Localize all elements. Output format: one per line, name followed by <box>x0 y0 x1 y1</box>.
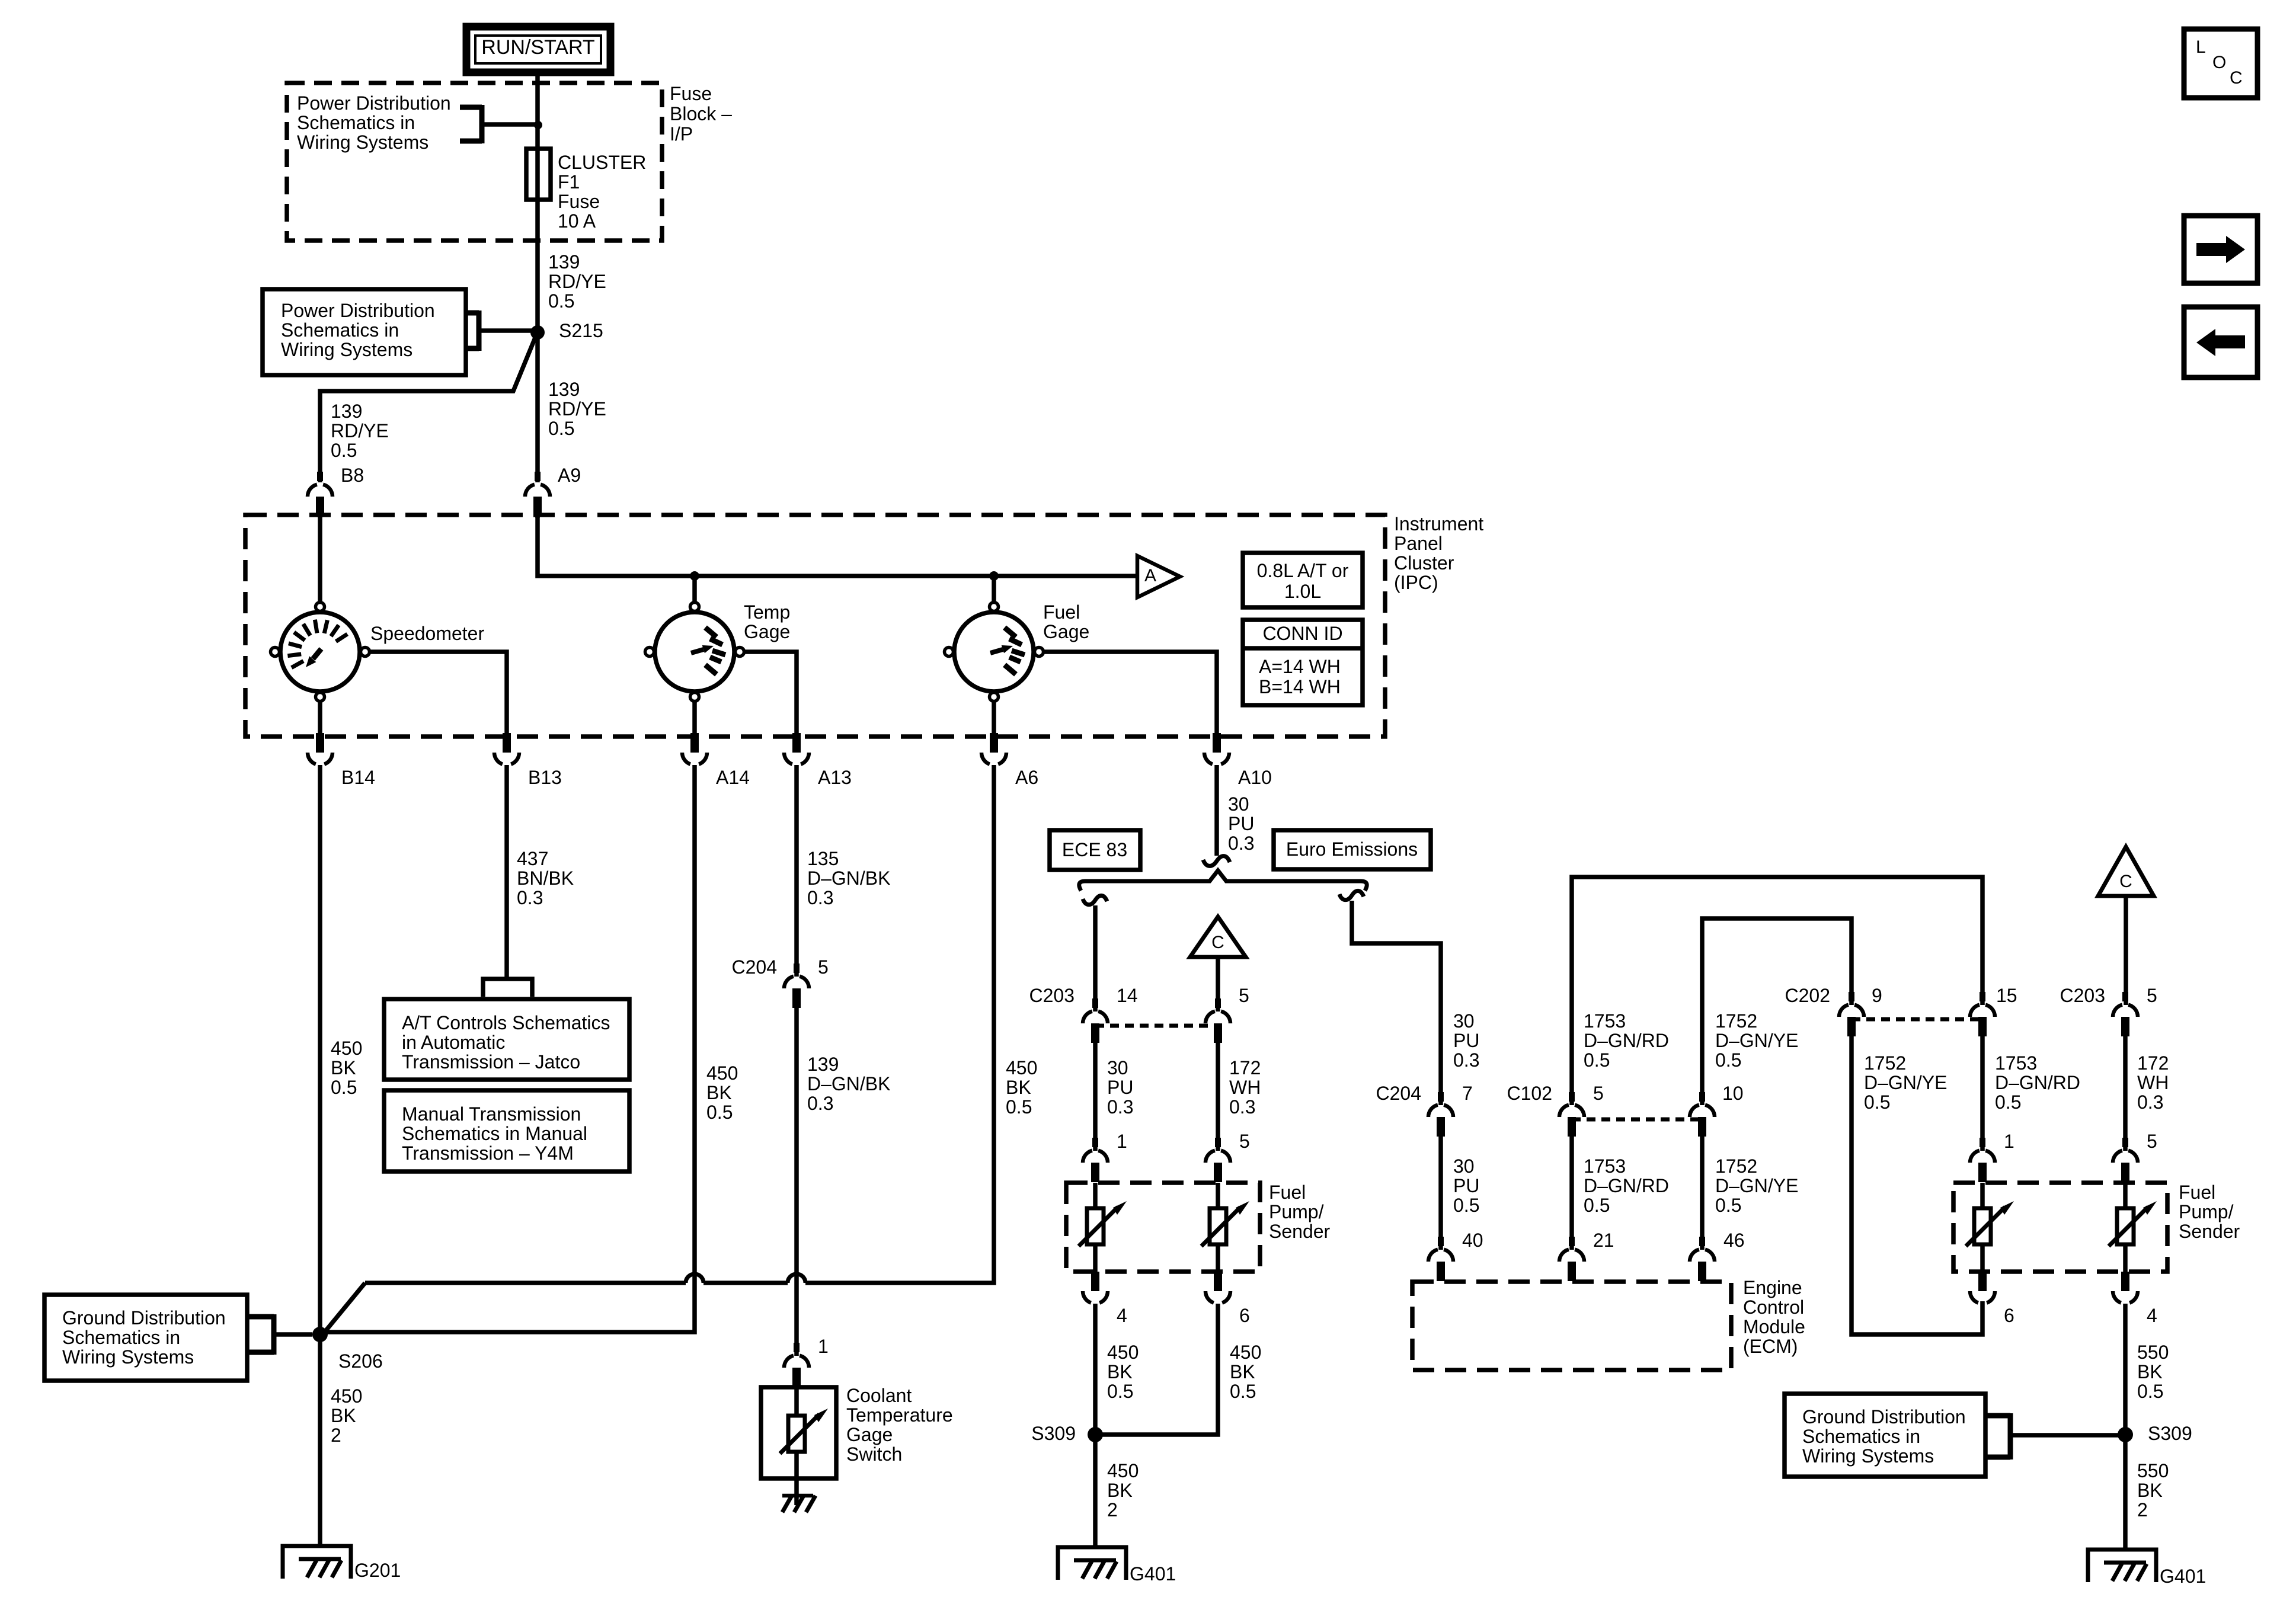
wire C triangle to C203-5 <box>1216 957 1220 1012</box>
label 450 BK 2 (left) <box>1107 1460 1139 1521</box>
wire C204-7 to ECM 40 <box>1438 1137 1443 1250</box>
svg-text:550: 550 <box>2137 1460 2169 1481</box>
connector fuel pump pin 6 (right) <box>1970 1272 1995 1303</box>
connector C203 pin 14 <box>1083 998 1108 1043</box>
svg-text:BK: BK <box>331 1405 356 1426</box>
svg-text:0.3: 0.3 <box>1107 1096 1133 1118</box>
staple to A/T box <box>483 979 532 997</box>
svg-text:14: 14 <box>1117 985 1138 1006</box>
svg-text:Fuel: Fuel <box>1043 601 1080 623</box>
svg-text:O: O <box>2212 53 2226 72</box>
instrument panel cluster dashed box <box>245 515 1385 737</box>
svg-text:S215: S215 <box>559 320 603 341</box>
wire A14 down to S206 branch <box>320 765 695 1332</box>
svg-text:Fuel: Fuel <box>1269 1182 1306 1203</box>
label 139 RD/YE 0.5 (B8 branch) <box>331 401 389 461</box>
connector C204 pin 7 <box>1428 1092 1453 1137</box>
svg-text:5: 5 <box>1239 985 1249 1006</box>
label 172 WH 0.3 (below C203-5) <box>1229 1057 1261 1118</box>
label 1752 D-GN/YE 0.5 (below C102) <box>1715 1156 1798 1216</box>
brace variant split <box>1079 870 1367 891</box>
svg-text:Sender: Sender <box>1269 1221 1331 1242</box>
power source RUN/START <box>466 27 610 72</box>
svg-text:1: 1 <box>2004 1131 2014 1152</box>
svg-text:Euro Emissions: Euro Emissions <box>1286 838 1418 860</box>
wire C triangle to C203-5 right <box>2124 896 2128 1005</box>
connector fuel pump pin 5 (left) <box>1205 1138 1230 1182</box>
svg-text:1: 1 <box>818 1336 829 1357</box>
svg-text:0.5: 0.5 <box>1995 1092 2021 1113</box>
svg-text:C204: C204 <box>1376 1083 1422 1104</box>
pin A6 label <box>1015 767 1038 788</box>
connector fuel pump pin 1 (right) <box>1970 1138 1995 1182</box>
svg-text:0.5: 0.5 <box>331 440 357 461</box>
svg-text:C202: C202 <box>1785 985 1831 1006</box>
svg-text:Fuse: Fuse <box>670 83 712 104</box>
wire pin4 to S309 to G401 (right) <box>2123 1304 2128 1549</box>
svg-text:C: C <box>1211 933 1224 952</box>
svg-text:9: 9 <box>1872 985 1882 1006</box>
svg-text:Gage: Gage <box>744 621 790 642</box>
break squiggle ECE branch <box>1083 895 1107 904</box>
connector ECM pin 40 <box>1428 1237 1453 1281</box>
svg-text:Wiring Systems: Wiring Systems <box>297 132 428 153</box>
svg-text:450: 450 <box>1006 1057 1037 1078</box>
svg-text:0.5: 0.5 <box>548 290 574 312</box>
svg-text:BK: BK <box>1107 1361 1133 1382</box>
connector C202 pin 9 <box>1839 992 1864 1036</box>
pin B14 label <box>341 767 375 788</box>
svg-text:D–GN/RD: D–GN/RD <box>1584 1175 1669 1196</box>
svg-text:40: 40 <box>1462 1230 1483 1251</box>
wire B8 into IPC <box>318 516 322 601</box>
svg-text:G201: G201 <box>354 1560 401 1581</box>
pin B13 label <box>528 767 562 788</box>
wire C102-5 to ECM 21 <box>1569 1137 1574 1250</box>
svg-text:0.3: 0.3 <box>1453 1049 1479 1071</box>
svg-text:15: 15 <box>1996 985 2017 1006</box>
svg-text:A=14 WH: A=14 WH <box>1259 656 1341 677</box>
svg-text:7: 7 <box>1462 1083 1473 1104</box>
fuse CLUSTER F1 10A <box>526 149 551 200</box>
wire Euro branch to C204-7 <box>1352 901 1441 1105</box>
svg-text:450: 450 <box>1107 1460 1139 1481</box>
svg-text:PU: PU <box>1453 1030 1479 1051</box>
svg-text:10: 10 <box>1722 1083 1744 1104</box>
wire fuse to S215 to A9 <box>535 200 540 482</box>
svg-text:5: 5 <box>2147 1131 2157 1152</box>
svg-text:C: C <box>2230 68 2243 88</box>
svg-text:Fuel: Fuel <box>2179 1182 2215 1203</box>
pin A13 label <box>818 767 852 788</box>
wire speedometer to B14 <box>318 702 322 735</box>
svg-text:BK: BK <box>1107 1480 1133 1501</box>
connector C102 pin 10 <box>1690 1092 1715 1137</box>
wire A6 down to S206 branch <box>324 765 994 1333</box>
svg-text:Coolant: Coolant <box>846 1385 912 1406</box>
label G401 (left) <box>1130 1563 1176 1585</box>
svg-text:C203: C203 <box>2060 985 2106 1006</box>
svg-text:BK: BK <box>1006 1077 1031 1098</box>
svg-text:450: 450 <box>331 1385 362 1407</box>
label 172 WH 0.3 (C203-5 right) <box>2137 1052 2169 1113</box>
connector ECM pin 46 <box>1690 1237 1715 1281</box>
svg-text:Instrument: Instrument <box>1394 513 1483 534</box>
svg-text:4: 4 <box>2147 1305 2157 1326</box>
connector C202 pin 15 <box>1970 992 1995 1036</box>
label 550 BK 0.5 <box>2137 1342 2169 1402</box>
bracket ground distribution left <box>247 1314 312 1355</box>
wire net 1753 upper loop <box>1572 877 1982 1105</box>
wire C102-10 to ECM 46 <box>1700 1137 1705 1250</box>
svg-text:RD/YE: RD/YE <box>548 398 606 420</box>
wire B14 to S206 to G201 <box>318 765 322 1547</box>
connector coolant switch pin 1 <box>784 1343 809 1387</box>
node S309 splice (right) <box>2118 1423 2192 1444</box>
svg-text:0.3: 0.3 <box>807 887 833 908</box>
wire C204-5 to coolant switch <box>794 1008 799 1356</box>
svg-text:C: C <box>2119 872 2132 891</box>
svg-text:Schematics in: Schematics in <box>297 112 415 133</box>
fuel sender resistor (left b) <box>1201 1183 1249 1272</box>
svg-text:Block –: Block – <box>670 103 732 124</box>
svg-text:46: 46 <box>1723 1230 1745 1251</box>
svg-text:A: A <box>1144 566 1156 585</box>
pin 40 label <box>1462 1230 1483 1251</box>
svg-text:S309: S309 <box>1031 1423 1076 1444</box>
connector B14 <box>308 733 332 764</box>
svg-text:BK: BK <box>331 1057 356 1078</box>
label 450 BK 0.5 (fuel ground) <box>1006 1057 1037 1118</box>
svg-text:Ground Distribution: Ground Distribution <box>1802 1406 1966 1427</box>
svg-text:0.5: 0.5 <box>1006 1096 1032 1118</box>
label Fuel Pump Sender (right) <box>2179 1182 2240 1242</box>
svg-text:D–GN/YE: D–GN/YE <box>1715 1030 1798 1051</box>
label 450 BK 0.5 (temp ground) <box>706 1062 738 1123</box>
fuse block dashed box Fuse Block - I/P <box>287 83 662 241</box>
wire temp gage to A14 <box>692 702 697 735</box>
svg-text:Sender: Sender <box>2179 1221 2240 1242</box>
wire coolant switch to ground <box>794 1478 799 1505</box>
svg-text:D–GN/YE: D–GN/YE <box>1715 1175 1798 1196</box>
svg-text:Manual Transmission: Manual Transmission <box>402 1103 581 1125</box>
wire net 1752 upper loop <box>1702 918 1851 1105</box>
svg-text:1753: 1753 <box>1995 1052 2037 1074</box>
label 1752 D-GN/YE 0.5 (above C102) <box>1715 1010 1798 1071</box>
svg-text:B=14 WH: B=14 WH <box>1259 676 1341 697</box>
svg-text:Cluster: Cluster <box>1394 552 1454 574</box>
pin B8 label <box>341 465 364 486</box>
svg-text:Switch: Switch <box>846 1443 902 1465</box>
fuel pump sender dashed box (right) <box>1953 1183 2167 1272</box>
wire feed to fuel gauge <box>992 576 996 601</box>
svg-text:1753: 1753 <box>1584 1156 1626 1177</box>
svg-text:172: 172 <box>1229 1057 1261 1078</box>
svg-text:0.8L A/T or: 0.8L A/T or <box>1257 560 1349 581</box>
svg-text:0.5: 0.5 <box>1864 1092 1890 1113</box>
node S206 splice <box>312 1327 383 1372</box>
svg-text:BK: BK <box>706 1082 732 1103</box>
svg-text:2: 2 <box>2137 1499 2148 1521</box>
bracket to power distribution (top) <box>460 105 538 143</box>
svg-text:BK: BK <box>2137 1361 2163 1382</box>
pin 4 label (left) <box>1117 1305 1127 1326</box>
ground G201 <box>283 1546 351 1579</box>
label 550 BK 2 <box>2137 1460 2169 1521</box>
svg-text:0.3: 0.3 <box>1228 833 1254 854</box>
label 1753 D-GN/RD 0.5 (C202-15) <box>1995 1052 2080 1113</box>
fuel sender resistor (right a) <box>1966 1183 2014 1272</box>
svg-text:5: 5 <box>1593 1083 1604 1104</box>
svg-text:RD/YE: RD/YE <box>548 271 606 292</box>
node feed-temp junction <box>690 571 699 581</box>
svg-text:Gage: Gage <box>1043 621 1089 642</box>
svg-text:Speedometer: Speedometer <box>370 623 484 644</box>
label CLUSTER F1 Fuse 10 A <box>558 152 646 232</box>
pin 6 label (right) <box>2004 1305 2014 1326</box>
break squiggle Euro branch <box>1339 891 1364 900</box>
wire A10 down <box>1214 765 1219 856</box>
label Coolant Temperature Gage Switch <box>846 1385 953 1465</box>
svg-text:30: 30 <box>1107 1057 1128 1078</box>
svg-text:2: 2 <box>1107 1499 1118 1521</box>
svg-text:A10: A10 <box>1238 767 1272 788</box>
box ECE 83 <box>1050 830 1140 870</box>
svg-text:in Automatic: in Automatic <box>402 1032 505 1053</box>
wire feed to temp gauge <box>692 576 697 601</box>
svg-text:550: 550 <box>2137 1342 2169 1363</box>
svg-text:BK: BK <box>1230 1361 1255 1382</box>
box CONN ID <box>1243 620 1363 705</box>
svg-text:0.3: 0.3 <box>807 1093 833 1114</box>
svg-text:Wiring Systems: Wiring Systems <box>281 339 412 360</box>
wire pin6 to S309 (left) <box>1095 1304 1218 1435</box>
connector C102 labels <box>1507 1083 1744 1104</box>
label 30 PU 0.3 (A10) <box>1228 793 1254 854</box>
svg-text:30: 30 <box>1228 793 1249 815</box>
svg-text:0.3: 0.3 <box>2137 1092 2163 1113</box>
svg-text:Temp: Temp <box>744 601 790 623</box>
dashed link C102 <box>1572 1118 1702 1122</box>
svg-text:CONN ID: CONN ID <box>1262 623 1342 644</box>
box Euro Emissions <box>1274 830 1431 869</box>
svg-text:437: 437 <box>517 848 548 869</box>
label 30 PU 0.3 (below C203-14) <box>1107 1057 1133 1118</box>
svg-text:Module: Module <box>1743 1316 1805 1337</box>
connector C204 pin 5 labels <box>732 956 829 978</box>
ground G401 (left) <box>1058 1547 1126 1580</box>
pin 5 label (left fuel pump) <box>1239 1131 1250 1152</box>
gauge fuel gage <box>945 603 1044 702</box>
gauge speedometer <box>271 603 370 702</box>
connector C204 pin 7 labels <box>1376 1083 1473 1104</box>
svg-text:0.5: 0.5 <box>1584 1049 1610 1071</box>
connector C102 pin 5 <box>1559 1092 1584 1137</box>
label Fuel Pump Sender (left) <box>1269 1182 1331 1242</box>
label G401 (right) <box>2160 1566 2206 1587</box>
svg-text:Schematics in: Schematics in <box>1802 1426 1920 1447</box>
label Power Distribution Schematics (top) <box>297 92 451 153</box>
connector fuel pump pin 6 (left) <box>1205 1272 1230 1303</box>
pin 21 label <box>1593 1230 1614 1251</box>
connector C203 pin 5 (left) <box>1205 998 1230 1043</box>
connector A6 <box>981 733 1006 764</box>
reference triangle C (right) <box>2098 847 2154 896</box>
wire C203-5 to fuel pump 5 (right) <box>2123 1036 2128 1151</box>
pin 46 label <box>1723 1230 1745 1251</box>
legend LOC box <box>2184 29 2257 98</box>
arrow reference A <box>1137 556 1180 597</box>
svg-text:139: 139 <box>548 379 580 400</box>
svg-text:CLUSTER: CLUSTER <box>558 152 646 173</box>
svg-text:139: 139 <box>807 1054 839 1075</box>
svg-text:0.5: 0.5 <box>1230 1381 1256 1402</box>
svg-text:450: 450 <box>331 1038 362 1059</box>
svg-text:B14: B14 <box>341 767 375 788</box>
svg-text:Ground Distribution: Ground Distribution <box>62 1307 226 1329</box>
svg-text:D–GN/YE: D–GN/YE <box>1864 1072 1947 1093</box>
svg-text:21: 21 <box>1593 1230 1614 1251</box>
svg-text:2: 2 <box>331 1425 341 1446</box>
connector fuel pump pin 1 (left) <box>1083 1138 1108 1182</box>
svg-text:1: 1 <box>1117 1131 1127 1152</box>
wire C203-14 to fuel pump 1 <box>1093 1043 1098 1151</box>
svg-text:0.5: 0.5 <box>1715 1049 1741 1071</box>
svg-text:6: 6 <box>2004 1305 2014 1326</box>
svg-text:(IPC): (IPC) <box>1394 572 1438 593</box>
svg-text:Schematics in: Schematics in <box>62 1327 180 1348</box>
svg-text:Fuse: Fuse <box>558 191 600 212</box>
pin 5 label (C203 left) <box>1239 985 1249 1006</box>
svg-text:D–GN/RD: D–GN/RD <box>1584 1030 1669 1051</box>
connector A9 <box>525 472 550 518</box>
svg-text:172: 172 <box>2137 1052 2169 1074</box>
connector A13 <box>784 733 809 764</box>
wire fuel gage to A6 <box>992 702 996 735</box>
label 1752 D-GN/YE 0.5 (C202-9) <box>1864 1052 1947 1113</box>
svg-text:ECE 83: ECE 83 <box>1062 839 1127 860</box>
svg-text:C102: C102 <box>1507 1083 1553 1104</box>
svg-text:0.5: 0.5 <box>1584 1195 1610 1216</box>
wire C202-15 to fuel pump 1 <box>1980 1036 1985 1151</box>
coolant temperature gage switch box <box>761 1387 836 1478</box>
svg-text:D–GN/RD: D–GN/RD <box>1995 1072 2080 1093</box>
node junction at fuse block <box>534 121 542 129</box>
wire fuel gage right to A10 <box>1044 652 1217 735</box>
svg-text:0.5: 0.5 <box>1453 1195 1479 1216</box>
connector fuel pump pin 4 (left) <box>1083 1272 1108 1303</box>
svg-text:30: 30 <box>1453 1156 1475 1177</box>
svg-text:Wiring Systems: Wiring Systems <box>62 1346 194 1368</box>
label Instrument Panel Cluster (IPC) <box>1394 513 1483 593</box>
svg-text:6: 6 <box>1239 1305 1250 1326</box>
svg-text:PU: PU <box>1228 813 1254 834</box>
svg-text:WH: WH <box>1229 1077 1261 1098</box>
pin A10 label <box>1238 767 1272 788</box>
label G201 <box>354 1560 401 1581</box>
svg-text:0.5: 0.5 <box>331 1077 357 1098</box>
wire A13 down to C204 <box>794 765 799 977</box>
connector C203 labels left <box>1029 985 1138 1006</box>
svg-text:5: 5 <box>1239 1131 1250 1152</box>
svg-text:A13: A13 <box>818 767 852 788</box>
bracket to power distribution (mid) <box>466 311 533 351</box>
label 135 D-GN/BK 0.3 <box>807 848 890 908</box>
svg-text:Pump/: Pump/ <box>2179 1201 2234 1222</box>
pin 1 label (coolant switch) <box>818 1336 829 1357</box>
box 0.8L A/T or 1.0L <box>1243 553 1363 607</box>
svg-text:C204: C204 <box>732 956 778 978</box>
fuel sender resistor (left a) <box>1079 1183 1127 1272</box>
pin 4 label (right) <box>2147 1305 2157 1326</box>
svg-text:Power Distribution: Power Distribution <box>297 92 451 114</box>
svg-text:139: 139 <box>548 251 580 273</box>
label Engine Control Module (ECM) <box>1743 1277 1805 1357</box>
wire S215 branch to B8 <box>320 335 536 482</box>
wire A9 feed inside IPC <box>538 516 1136 576</box>
hop bump over A13 wire <box>788 1274 805 1283</box>
label Fuse Block - I/P <box>670 83 732 145</box>
svg-text:Transmission – Jatco: Transmission – Jatco <box>402 1051 580 1073</box>
pin A9 label <box>558 465 581 486</box>
svg-text:S309: S309 <box>2148 1423 2192 1444</box>
label 437 BN/BK 0.3 <box>517 848 574 908</box>
svg-text:A6: A6 <box>1015 767 1038 788</box>
pin 6 label (left) <box>1239 1305 1250 1326</box>
connector A10 <box>1204 733 1229 764</box>
connector fuel pump pin 5 (right) <box>2113 1138 2138 1182</box>
svg-text:0.3: 0.3 <box>517 887 543 908</box>
legend arrow left box <box>2184 307 2257 377</box>
pin 5 label (right fuel pump) <box>2147 1131 2157 1152</box>
wire temp gage right to A13 <box>744 652 797 735</box>
svg-text:0.5: 0.5 <box>2137 1381 2163 1402</box>
svg-text:450: 450 <box>706 1062 738 1084</box>
label 1753 D-GN/RD 0.5 (above C102) <box>1584 1010 1669 1071</box>
box A/T Controls Schematics <box>384 999 629 1080</box>
label 139 D-GN/BK 0.3 <box>807 1054 890 1114</box>
wire C202-9 to fuel pump 6 <box>1851 1036 1982 1334</box>
svg-text:C203: C203 <box>1029 985 1075 1006</box>
ground G401 (right) <box>2088 1550 2156 1582</box>
label 450 BK 0.5 (speedometer ground) <box>331 1038 362 1098</box>
svg-text:0.5: 0.5 <box>1715 1195 1741 1216</box>
hop bump over A14 wire <box>686 1274 703 1283</box>
svg-text:Transmission – Y4M: Transmission – Y4M <box>402 1142 574 1164</box>
svg-text:30: 30 <box>1453 1010 1475 1032</box>
connector B8 <box>308 472 332 518</box>
svg-text:(ECM): (ECM) <box>1743 1336 1798 1357</box>
svg-text:1752: 1752 <box>1864 1052 1906 1074</box>
svg-text:1752: 1752 <box>1715 1156 1757 1177</box>
wire speedometer right to B13 <box>370 652 507 735</box>
connector C203 labels right <box>2060 985 2157 1006</box>
svg-text:S206: S206 <box>338 1350 383 1372</box>
svg-text:PU: PU <box>1107 1077 1133 1098</box>
svg-text:I/P: I/P <box>670 123 693 145</box>
svg-text:BK: BK <box>2137 1480 2163 1501</box>
svg-text:PU: PU <box>1453 1175 1479 1196</box>
label Power Distribution Schematics (mid) box <box>263 289 466 375</box>
wire pin4 to S309 to G401 (left) <box>1093 1304 1098 1547</box>
ground chassis (coolant switch) <box>782 1496 816 1512</box>
fuel pump sender dashed box (left) <box>1066 1183 1260 1272</box>
label 450 BK 2 <box>331 1385 362 1446</box>
connector A14 <box>682 733 707 764</box>
node S215 splice <box>530 320 603 341</box>
svg-text:F1: F1 <box>558 171 580 193</box>
svg-text:1753: 1753 <box>1584 1010 1626 1032</box>
